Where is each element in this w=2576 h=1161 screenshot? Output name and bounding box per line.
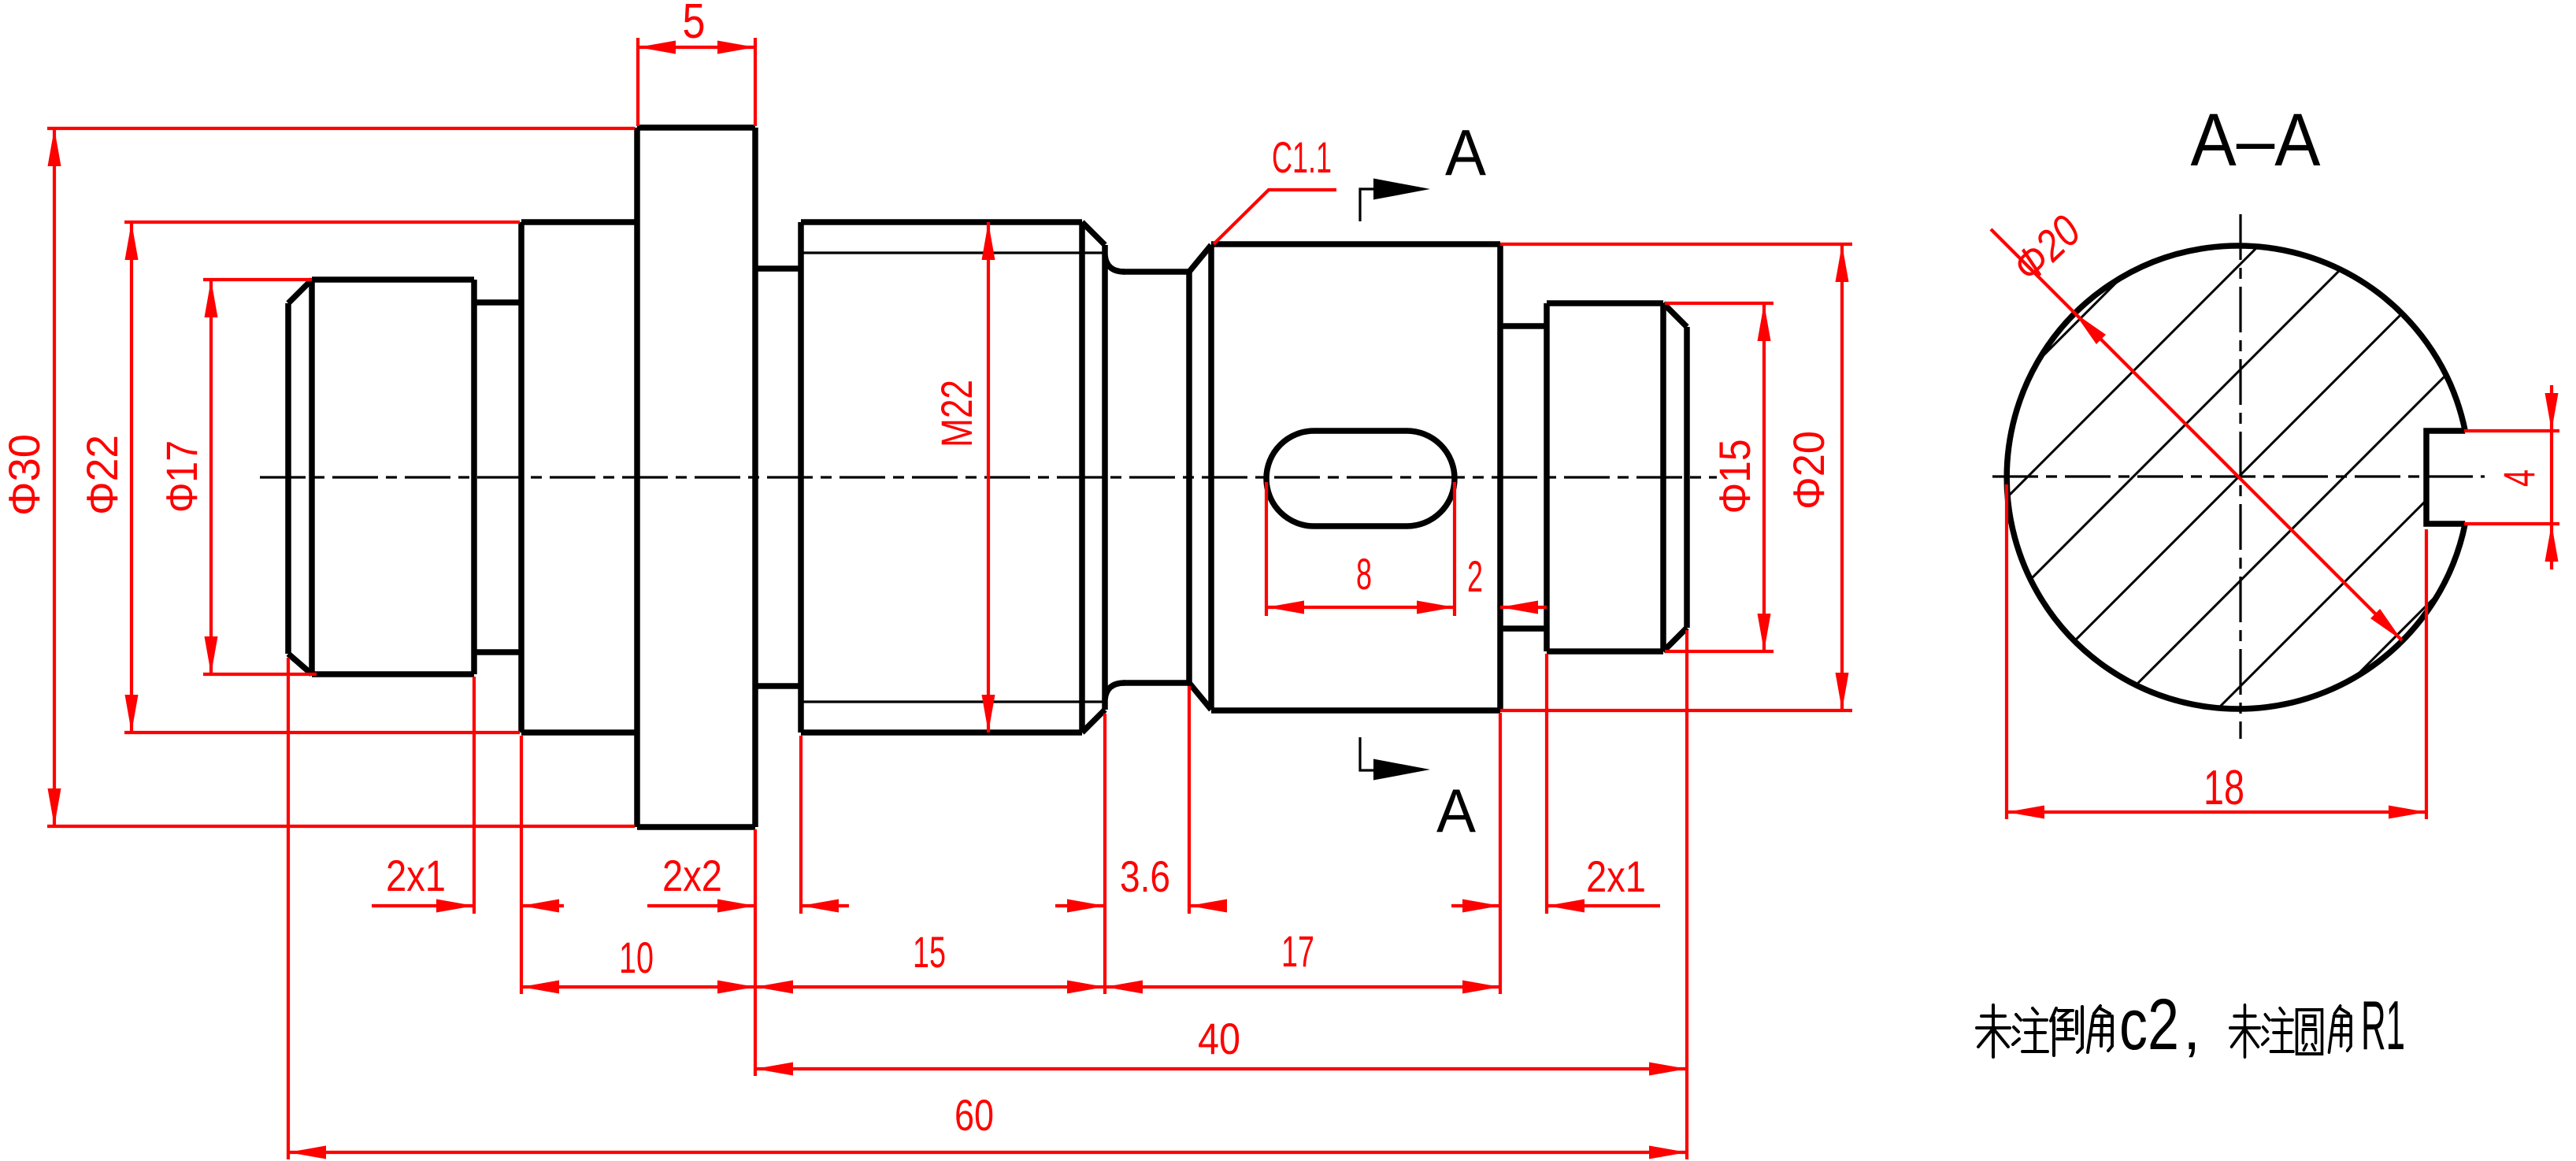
svg-text:2: 2 bbox=[1467, 551, 1483, 601]
M22 thread minor line top bbox=[803, 251, 1103, 254]
dim 3.6 line b bbox=[1189, 904, 1225, 907]
flange phi30 bottom edge bbox=[637, 824, 755, 830]
phi20 section bottom edge bbox=[1211, 707, 1500, 714]
dim 3.6 arrow b bbox=[1189, 899, 1227, 913]
svg-text:15: 15 bbox=[913, 927, 946, 977]
dim 18 left extension line bbox=[2005, 484, 2008, 819]
phi20 section top edge bbox=[1211, 241, 1500, 247]
phi22 arrow bottom bbox=[125, 695, 139, 733]
svg-text:R1: R1 bbox=[2361, 986, 2405, 1064]
flange phi30 right face bbox=[752, 128, 758, 827]
relief groove 2x2 top edge bbox=[755, 265, 801, 272]
shaft left top chamfer bbox=[288, 280, 312, 303]
dim 40 arrow left bbox=[755, 1063, 793, 1076]
dim 4 arrow bottom bbox=[2545, 524, 2559, 562]
svg-text:A: A bbox=[1445, 116, 1487, 189]
phi15 bottom extension line bbox=[1665, 650, 1774, 653]
M22 section left face bbox=[798, 222, 804, 733]
neck right face bbox=[1186, 272, 1192, 683]
section cut arrow bottom bbox=[1373, 759, 1430, 781]
phi20 diagonal dimension line bbox=[1991, 229, 2402, 640]
svg-text:c2: c2 bbox=[2119, 985, 2179, 1065]
shaft right bottom chamfer bbox=[1663, 628, 1687, 651]
dim 5 arrow left bbox=[638, 41, 676, 54]
dim 8 dimension line bbox=[1266, 606, 1455, 609]
note: unnoted chamfer c2, unnoted fillet R1 bbox=[1977, 1005, 2010, 1057]
ext line phi22 left face bbox=[520, 736, 523, 994]
svg-text:Φ17: Φ17 bbox=[157, 440, 206, 513]
shaft left bottom chamfer bbox=[288, 654, 312, 674]
phi15 arrow bottom bbox=[1758, 614, 1771, 651]
dim 3.6 arrow a bbox=[1067, 899, 1105, 913]
ext line phi20 right face bbox=[1499, 713, 1502, 994]
dim 10 arrow left bbox=[521, 981, 559, 994]
phi20 arrow top bbox=[1836, 244, 1849, 282]
M22 section bottom edge bbox=[801, 729, 1082, 736]
ext line phi15 left face bbox=[1545, 654, 1548, 914]
shaft right top chamfer bbox=[1663, 303, 1687, 327]
svg-text:Φ22: Φ22 bbox=[77, 435, 127, 515]
dim 8 left extension line bbox=[1265, 482, 1268, 616]
ext line M22 left face bbox=[799, 736, 802, 914]
section cut line top bbox=[1360, 189, 1376, 221]
M22 arrow bottom bbox=[982, 695, 995, 733]
phi30 arrow bottom bbox=[48, 788, 61, 826]
dim 15 arrow left bbox=[755, 981, 793, 994]
dim 4 line bbox=[2550, 385, 2553, 569]
dim 18 dimension line bbox=[2007, 810, 2426, 814]
phi22 section left face bbox=[518, 222, 524, 733]
section vertical centerline bbox=[2239, 214, 2241, 739]
phi17 dimension line bbox=[209, 280, 213, 674]
svg-text:A: A bbox=[1436, 776, 1476, 845]
phi22 dimension line bbox=[130, 222, 133, 733]
ext line neck left bbox=[1103, 714, 1106, 994]
phi20 dimension line bbox=[1840, 244, 1844, 710]
phi30 dimension line bbox=[53, 128, 56, 826]
dim 5 left extension line bbox=[636, 38, 639, 126]
left groove 2x1 top edge bbox=[474, 299, 521, 306]
M22 dimension line bbox=[987, 222, 990, 733]
phi15 dimension line bbox=[1762, 303, 1766, 651]
dim 2x1 right line b bbox=[1547, 904, 1660, 907]
phi15 section bottom edge bbox=[1547, 648, 1663, 655]
phi20 diagonal arrow upper bbox=[2074, 313, 2106, 344]
phi17 bottom extension line bbox=[203, 673, 317, 676]
M22 thread minor line bottom bbox=[803, 700, 1103, 703]
dim 4 bottom extension line bbox=[2464, 522, 2559, 525]
svg-text:Φ15: Φ15 bbox=[1710, 440, 1759, 514]
M22 arrow top bbox=[982, 222, 995, 260]
phi15 top extension line bbox=[1665, 302, 1774, 305]
phi20 bottom extension line bbox=[1500, 709, 1852, 712]
svg-text:8: 8 bbox=[1356, 549, 1372, 599]
main axis centerline bbox=[260, 476, 1717, 478]
phi17 section bottom edge bbox=[312, 671, 474, 677]
dim 17 arrow left bbox=[1105, 981, 1143, 994]
phi15 section left face bbox=[1544, 303, 1550, 651]
dim 2x1 left line a bbox=[372, 904, 474, 907]
dim 17 arrow right bbox=[1462, 981, 1500, 994]
svg-text:2x1: 2x1 bbox=[1586, 851, 1646, 901]
phi20 right face bbox=[1497, 244, 1503, 710]
dim 4 arrow top bbox=[2545, 393, 2559, 431]
dim 18 arrow left bbox=[2007, 806, 2044, 819]
dim 2x2 arrow b bbox=[801, 899, 839, 913]
phi17 section top edge bbox=[312, 276, 474, 283]
neck 3.6 top flat bbox=[1123, 269, 1189, 275]
phi22 arrow top bbox=[125, 222, 139, 260]
neck fillet top bbox=[1105, 255, 1125, 272]
phi17 arrow bottom bbox=[205, 636, 218, 674]
dim 5 dimension line bbox=[638, 46, 755, 49]
svg-text:2x2: 2x2 bbox=[662, 851, 722, 900]
dim 3.6 line a bbox=[1055, 904, 1105, 907]
flange phi30 top edge bbox=[637, 124, 755, 131]
dim 2 dimension line bbox=[1500, 606, 1547, 609]
neck fillet bottom bbox=[1105, 683, 1125, 699]
ext line neck right bbox=[1188, 686, 1191, 914]
svg-text:M22: M22 bbox=[932, 380, 981, 447]
phi30 arrow top bbox=[48, 128, 61, 166]
C1.1 leader line bbox=[1214, 190, 1336, 244]
phi17 arrow top bbox=[205, 280, 218, 317]
dim 2x1 right arrow b bbox=[1547, 899, 1585, 913]
phi20 top extension line bbox=[1500, 243, 1852, 246]
phi15 arrow top bbox=[1758, 303, 1771, 341]
right groove 2x1 top edge bbox=[1500, 323, 1547, 329]
shaft left chamfer edge line bbox=[309, 280, 315, 674]
section circle outline bbox=[2007, 246, 2465, 709]
keyway slot outline bbox=[1266, 431, 1455, 526]
dim 2x2 arrow a bbox=[717, 899, 755, 913]
section horizontal centerline bbox=[1992, 475, 2485, 477]
flange phi30 left face bbox=[634, 128, 640, 827]
dim 2x1 left line b bbox=[521, 904, 564, 907]
svg-text:5: 5 bbox=[683, 0, 706, 49]
svg-text:C1.1: C1.1 bbox=[1272, 132, 1332, 182]
ext line groove left edge bbox=[473, 677, 476, 914]
dim 2x2 line a bbox=[647, 904, 755, 907]
dim 2 arrow bbox=[1500, 601, 1538, 614]
phi22 bottom extension line bbox=[124, 731, 520, 734]
dim 10 dimension line bbox=[521, 985, 755, 989]
svg-text:17: 17 bbox=[1281, 926, 1314, 976]
M22 chamfer start edge line bbox=[1079, 222, 1085, 733]
phi15 section top edge bbox=[1547, 300, 1663, 306]
phi17 right face bbox=[471, 280, 477, 674]
dim 5 right extension line bbox=[754, 38, 757, 126]
phi22 section bottom edge bbox=[521, 729, 637, 736]
phi22 top extension line bbox=[124, 221, 520, 224]
svg-text:A–A: A–A bbox=[2191, 98, 2322, 182]
dim 60 dimension line bbox=[288, 1151, 1687, 1154]
svg-text:4: 4 bbox=[2494, 469, 2544, 487]
dim 18 arrow right bbox=[2389, 806, 2426, 819]
shaft left end face phi17 bbox=[285, 303, 291, 654]
dim 8 right extension line bbox=[1453, 482, 1456, 616]
dim 10 arrow right bbox=[717, 981, 755, 994]
neck-to-phi20 bottom chamfer bbox=[1189, 683, 1211, 710]
dim 15 arrow right bbox=[1067, 981, 1105, 994]
shaft right end face bbox=[1684, 327, 1690, 628]
phi22 section top edge bbox=[521, 219, 637, 225]
M22 right top chamfer bbox=[1082, 222, 1105, 245]
relief groove 2x2 bottom edge bbox=[755, 683, 801, 689]
dim 2x2 line b bbox=[801, 904, 849, 907]
svg-text:18: 18 bbox=[2203, 761, 2244, 815]
ext line shaft left end bbox=[287, 658, 290, 1159]
dim 8 arrow left bbox=[1266, 601, 1304, 614]
section cut arrow top bbox=[1373, 179, 1430, 200]
phi15 chamfer edge line bbox=[1660, 303, 1666, 651]
M22 end face bbox=[1102, 245, 1108, 710]
left groove 2x1 bottom edge bbox=[474, 649, 521, 655]
ext line flange right face bbox=[754, 829, 757, 1076]
dim 2x1 right arrow a bbox=[1462, 899, 1500, 913]
dim 60 arrow left bbox=[288, 1146, 326, 1159]
right groove 2x1 bottom edge bbox=[1500, 625, 1547, 632]
section cut line bottom bbox=[1360, 737, 1376, 770]
phi20 diagonal arrow lower bbox=[2370, 609, 2402, 640]
dim 40 arrow right bbox=[1649, 1063, 1687, 1076]
dim 5 arrow right bbox=[717, 41, 755, 54]
dim 15 dimension line bbox=[755, 985, 1105, 989]
svg-text:,: , bbox=[2183, 992, 2200, 1063]
svg-text:2x1: 2x1 bbox=[386, 851, 446, 900]
dim 18 right extension line bbox=[2425, 529, 2428, 819]
svg-text:Φ30: Φ30 bbox=[0, 434, 49, 516]
phi30 top extension line bbox=[47, 127, 635, 130]
phi20 left face bbox=[1208, 245, 1214, 710]
dim 60 arrow right bbox=[1649, 1146, 1687, 1159]
M22 right bottom chamfer bbox=[1082, 710, 1105, 733]
M22 section top edge bbox=[801, 219, 1082, 225]
neck 3.6 bottom flat bbox=[1123, 680, 1189, 686]
dim 17 dimension line bbox=[1105, 985, 1500, 989]
phi30 bottom extension line bbox=[47, 825, 635, 828]
svg-text:60: 60 bbox=[954, 1090, 994, 1140]
svg-text:40: 40 bbox=[1198, 1014, 1240, 1063]
svg-text:10: 10 bbox=[619, 933, 654, 982]
dim 2x1 right line a bbox=[1451, 904, 1500, 907]
svg-text:Φ20: Φ20 bbox=[1784, 431, 1833, 510]
dim 40 dimension line bbox=[755, 1067, 1687, 1070]
ext line shaft right end bbox=[1685, 630, 1688, 1159]
phi17 top extension line bbox=[203, 278, 312, 281]
phi20 arrow bottom bbox=[1836, 673, 1849, 710]
section keyway notch bbox=[2426, 431, 2465, 524]
dim 4 top extension line bbox=[2464, 429, 2559, 432]
dim 2x1 left arrow a bbox=[436, 899, 474, 913]
neck-to-phi20 top chamfer bbox=[1189, 245, 1211, 272]
dim 2x1 left arrow b bbox=[521, 899, 559, 913]
svg-text:3.6: 3.6 bbox=[1120, 851, 1170, 901]
dim 8 arrow right bbox=[1417, 601, 1455, 614]
